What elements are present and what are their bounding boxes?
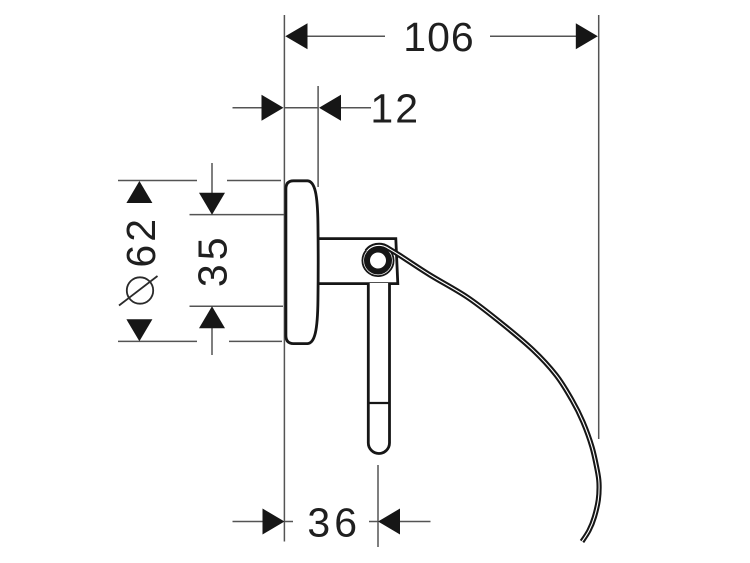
svg-text:62: 62 bbox=[118, 216, 164, 268]
svg-text:106: 106 bbox=[403, 14, 474, 60]
svg-text:35: 35 bbox=[189, 233, 235, 287]
svg-text:12: 12 bbox=[370, 86, 420, 132]
svg-text:36: 36 bbox=[307, 499, 361, 545]
